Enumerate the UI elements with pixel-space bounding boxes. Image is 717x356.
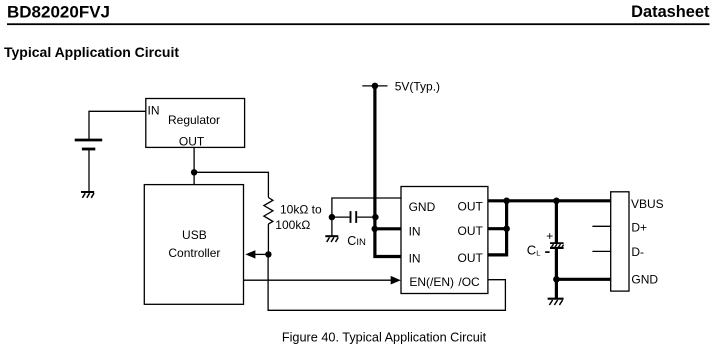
wire D- stub: [592, 250, 610, 252]
svg-text:IN: IN: [148, 103, 160, 117]
ground (CL): [548, 299, 564, 305]
svg-text:Regulator: Regulator: [168, 113, 220, 127]
svg-text:+: +: [546, 229, 553, 243]
svg-text:CIN: CIN: [347, 234, 366, 248]
wire OUT3 stub and bus up: [488, 201, 507, 255]
wire OUT2 stub: [488, 227, 508, 230]
node OUT bus middle: [503, 225, 510, 232]
svg-text:D+: D+: [631, 220, 647, 234]
node 5V rail capacitor junction: [372, 214, 378, 220]
USB controller box: [144, 185, 243, 305]
ground (battery): [81, 192, 94, 198]
svg-text:VBUS: VBUS: [631, 197, 664, 211]
node CIN left junction: [329, 214, 335, 220]
node 5V supply: [362, 85, 387, 87]
svg-text:EN(/EN): EN(/EN): [409, 275, 454, 289]
wire arrow into USB controller: [255, 253, 269, 255]
wire 5V rail down to IN pins: [375, 84, 401, 256]
capacitor CIN: [332, 211, 375, 223]
svg-text:5V(Typ.): 5V(Typ.): [395, 79, 440, 93]
wire OUT1 stub: [488, 199, 508, 202]
svg-text:D-: D-: [631, 245, 644, 259]
svg-text:IN: IN: [409, 251, 421, 265]
svg-text:IN: IN: [409, 225, 421, 239]
wire VBUS: [507, 199, 611, 202]
node resistor bottom junction: [265, 251, 271, 257]
wire /OC feedback loop: [268, 254, 505, 310]
svg-text:Figure 40. Typical Application: Figure 40. Typical Application Circuit: [282, 330, 487, 344]
label minus (CL): [545, 251, 549, 253]
node CL bottom junction: [553, 276, 560, 283]
svg-text:Controller: Controller: [168, 246, 220, 260]
svg-text:GND: GND: [631, 272, 658, 286]
resistor R1 zigzag: [264, 198, 273, 225]
svg-text:Datasheet: Datasheet: [631, 3, 710, 21]
svg-text:OUT: OUT: [179, 135, 205, 149]
svg-text:OUT: OUT: [458, 199, 484, 213]
svg-text:100kΩ: 100kΩ: [275, 218, 310, 232]
wire EN from USB controller to IC: [244, 279, 392, 281]
IC U1 box: [401, 187, 488, 294]
node CL top junction: [553, 198, 560, 205]
wire GND to connector: [556, 278, 611, 281]
svg-text:CL: CL: [527, 242, 541, 257]
battery BT1 bottom plate: [82, 148, 95, 151]
regulator box: [146, 99, 245, 148]
wire CL branch down: [555, 201, 558, 299]
wire D+ stub: [592, 225, 610, 227]
header rule: [7, 23, 710, 25]
wire resistor bottom lead: [267, 224, 269, 254]
battery BT1 top plate: [75, 139, 103, 142]
node OUT bus top: [503, 198, 510, 205]
svg-text:USB: USB: [182, 228, 207, 242]
wire battery to regulator IN: [89, 111, 146, 140]
svg-text:BD82020FVJ: BD82020FVJ: [7, 2, 110, 21]
wire regulator OUT down to USB controller: [193, 147, 195, 184]
svg-text:Typical Application Circuit: Typical Application Circuit: [4, 44, 179, 60]
node regulator OUT junction: [191, 169, 197, 175]
svg-text:GND: GND: [409, 200, 436, 214]
wire battery to ground: [88, 149, 90, 192]
node 5V rail IN junction: [372, 226, 378, 232]
svg-text:OUT: OUT: [458, 224, 484, 238]
connector J1 (USB receptacle): [611, 192, 629, 291]
svg-text:/OC: /OC: [458, 275, 480, 289]
svg-text:OUT: OUT: [458, 251, 484, 265]
ground (CIN): [325, 236, 338, 242]
wire GND pin to ground: [332, 198, 401, 236]
wire junction to resistor top: [194, 172, 268, 197]
svg-text:10kΩ to: 10kΩ to: [280, 202, 322, 216]
wire 5V rail to IN pin 1: [375, 227, 401, 230]
capacitor CL (polarized): [550, 243, 564, 248]
